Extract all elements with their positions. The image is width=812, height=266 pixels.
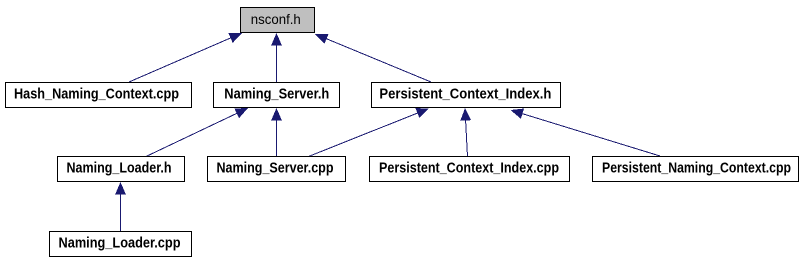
svg-text:Persistent_Naming_Context.cpp: Persistent_Naming_Context.cpp	[602, 161, 791, 177]
svg-text:Hash_Naming_Context.cpp: Hash_Naming_Context.cpp	[14, 87, 179, 103]
edge Persistent_Context_Index.h to nsconf.h	[315, 34, 431, 82]
edge Naming_Server.h to nsconf.h	[271, 33, 282, 82]
edge Persistent_Context_Index.cpp to Persistent_Context_Index.h	[460, 108, 471, 157]
node Naming_Server.h	[214, 83, 340, 108]
svg-text:Persistent_Context_Index.h: Persistent_Context_Index.h	[379, 87, 551, 103]
node Persistent_Context_Index.cpp	[370, 157, 570, 182]
svg-text:Naming_Loader.h: Naming_Loader.h	[67, 161, 172, 177]
edge Naming_Server.cpp to Naming_Server.h	[271, 108, 282, 157]
svg-text:Naming_Server.h: Naming_Server.h	[224, 87, 329, 103]
node Naming_Loader.h	[58, 157, 185, 182]
edge Naming_Loader.h to Naming_Server.h	[146, 108, 248, 157]
svg-text:Naming_Server.cpp: Naming_Server.cpp	[217, 161, 334, 177]
node Naming_Server.cpp	[208, 157, 346, 182]
node nsconf.h (root)	[241, 8, 315, 33]
edge Naming_Server.cpp to Persistent_Context_Index.h	[309, 108, 430, 156]
node Persistent_Naming_Context.cpp	[593, 157, 799, 182]
node Persistent_Context_Index.h	[372, 83, 561, 108]
svg-text:Persistent_Context_Index.cpp: Persistent_Context_Index.cpp	[379, 161, 559, 177]
edge Hash_Naming_Context.cpp to nsconf.h	[129, 33, 242, 82]
edge Naming_Loader.cpp to Naming_Loader.h	[115, 182, 126, 232]
node Hash_Naming_Context.cpp	[6, 83, 192, 108]
node Naming_Loader.cpp	[50, 232, 192, 257]
svg-text:nsconf.h: nsconf.h	[251, 11, 301, 27]
edge Persistent_Naming_Context.cpp to Persistent_Context_Index.h	[511, 109, 661, 157]
svg-text:Naming_Loader.cpp: Naming_Loader.cpp	[59, 236, 181, 252]
